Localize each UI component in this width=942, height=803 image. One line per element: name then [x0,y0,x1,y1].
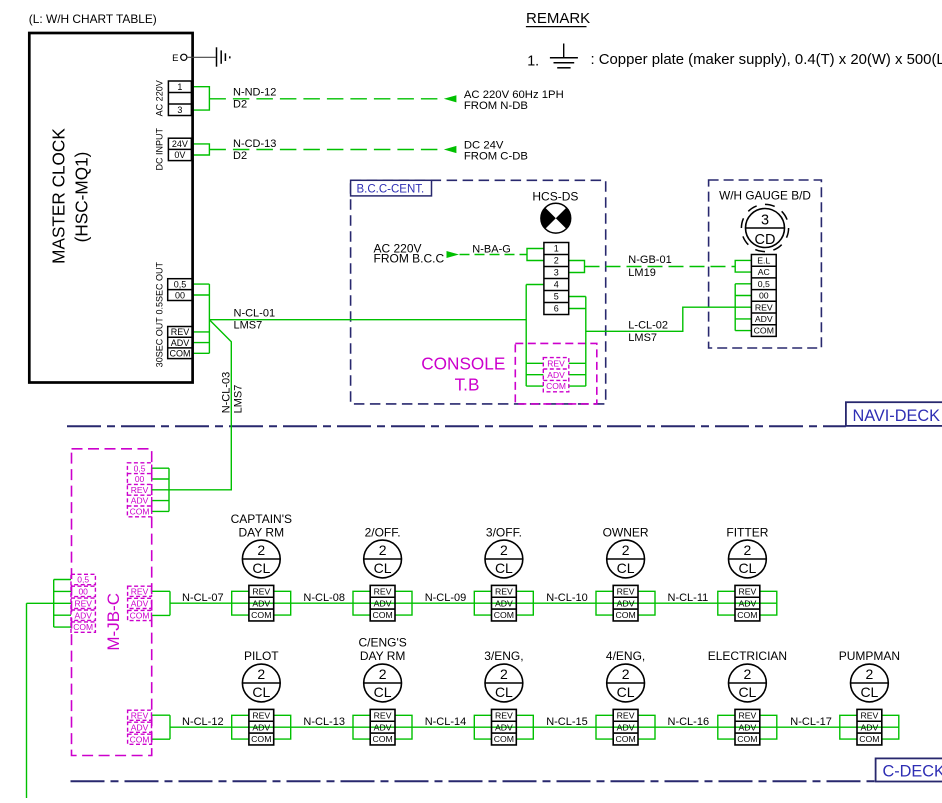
svg-text:: Copper plate (maker supply),: : Copper plate (maker supply), 0.4(T) x … [591,52,942,68]
svg-text:N-CL-12: N-CL-12 [182,716,224,728]
svg-text:W/H GAUGE B/D: W/H GAUGE B/D [719,189,811,203]
svg-text:0.5SEC OUT: 0.5SEC OUT [155,261,165,314]
note (L: W/H CHART TABLE) [29,12,157,26]
gauge board W/H GAUGE B/D [709,180,822,348]
svg-text:N-CL-14: N-CL-14 [425,716,467,728]
svg-text:CL: CL [252,684,270,700]
svg-text:2: 2 [744,666,752,682]
svg-text:COM: COM [494,734,514,744]
wire brackets clock row2 #1 [232,715,291,739]
wire brackets clock row1 #3 [474,591,533,615]
label DC 24V FROM C-DB [464,140,528,163]
wire to lower deck [27,603,54,798]
svg-text:2: 2 [379,542,387,558]
wire bracket HCS-DS pins 1,2 [527,249,544,261]
wire brackets clock row1 #5 [718,591,777,615]
master clock (HSC-MQ1) [29,33,192,383]
svg-text:N-CL-01: N-CL-01 [234,308,276,320]
slave clock 3/OFF. [485,526,523,621]
svg-text:4: 4 [554,280,559,290]
svg-text:N-CD-13: N-CD-13 [233,138,276,150]
svg-text:AC: AC [758,267,770,277]
svg-text:REV: REV [374,586,392,596]
svg-text:ADV: ADV [617,722,635,732]
svg-text:ADV: ADV [738,722,756,732]
svg-text:D2: D2 [233,150,247,162]
console T.B box [515,343,597,404]
svg-text:2: 2 [744,542,752,558]
svg-text:00: 00 [78,586,88,596]
svg-text:N-CL-09: N-CL-09 [425,592,467,604]
svg-text:CL: CL [495,560,513,576]
wire bracket M-JB-C row1 out [152,591,171,615]
wire E to earth [187,56,216,58]
label N-ND-12 D2 [233,87,276,111]
svg-text:CL: CL [738,684,756,700]
svg-text:N-CL-17: N-CL-17 [790,716,832,728]
svg-text:REV: REV [252,710,270,720]
svg-text:AC 220V: AC 220V [155,80,165,116]
svg-text:0,5: 0,5 [77,575,89,585]
label N-CL-17 [790,716,832,728]
label N-CL-11 [668,592,709,604]
arrowhead from N-DB [444,95,457,102]
label N-CL-12 [182,716,224,728]
wire row2 N-CL-12..17 [170,726,899,728]
label N-CL-10 [546,592,588,604]
svg-text:ADV: ADV [755,314,773,324]
svg-text:REMARK: REMARK [526,10,590,27]
slave clock C/ENG'S DAY RM [358,636,406,745]
svg-text:COM: COM [372,610,392,620]
svg-text:0,5: 0,5 [758,279,770,289]
label N-CL-07 [182,592,224,604]
svg-text:C-DECK: C-DECK [883,763,942,781]
wire N-CL-03 [169,320,231,490]
terminal strip W/H gauge [751,255,776,337]
svg-text:REV: REV [738,710,756,720]
svg-text:2: 2 [622,666,630,682]
wire bracket gauge E.L,AC [735,260,751,272]
svg-text:1: 1 [554,244,559,254]
wire brackets clock row2 #4 [596,715,655,739]
svg-text:N-CL-13: N-CL-13 [303,716,345,728]
svg-text:LM19: LM19 [628,267,656,279]
svg-text:ADV: ADV [252,598,270,608]
svg-text:(HSC-MQ1): (HSC-MQ1) [72,152,92,243]
junction box B.C.C-CENT [351,180,606,404]
svg-text:REV: REV [252,586,270,596]
label N-CL-03 LMS7 (vertical) [221,372,245,414]
svg-text:COM: COM [615,734,635,744]
label N-CD-13 D2 [233,138,276,162]
svg-text:ADV: ADV [131,496,149,506]
svg-text:N-GB-01: N-GB-01 [628,254,671,266]
svg-text:COM: COM [130,506,150,516]
slave clock CAPTAIN'S DAY RM [231,512,292,621]
wire brackets clock row1 #4 [596,591,655,615]
wire brackets clock row2 #5 [718,715,777,739]
wire bus gauge 0,5..COM [735,284,751,331]
svg-text:COM: COM [859,734,879,744]
svg-text:5: 5 [554,292,559,302]
svg-text:(L: W/H CHART TABLE): (L: W/H CHART TABLE) [29,12,157,26]
wire AC 220V bracket (pins 1,3) [193,87,210,110]
svg-text:N-BA-G: N-BA-G [472,243,511,255]
label N-CL-09 [425,592,467,604]
svg-text:COM: COM [251,734,271,744]
svg-text:OWNER: OWNER [603,526,649,540]
svg-text:N-CL-16: N-CL-16 [668,716,710,728]
svg-text:FITTER: FITTER [726,526,768,540]
svg-text:2: 2 [379,666,387,682]
svg-text:COM: COM [170,348,191,358]
svg-text:COM: COM [754,326,774,336]
arrowhead from C-DB [444,146,457,153]
slave clock HCS-DS symbol [532,190,578,234]
svg-text:FROM C-DB: FROM C-DB [464,150,528,162]
svg-text:CONSOLE: CONSOLE [421,354,505,374]
gauge clock symbol 3/CD [741,204,788,251]
remark heading [526,10,590,27]
svg-text:PILOT: PILOT [244,649,279,663]
label N-CL-14 [425,716,467,728]
svg-text:N-CL-11: N-CL-11 [668,592,709,604]
wire brackets clock row1 #2 [353,591,412,615]
wire N-CL-01 [209,319,526,321]
svg-text:ADV: ADV [374,722,392,732]
svg-text:FROM B.C.C: FROM B.C.C [374,252,445,266]
svg-text:REV: REV [74,598,92,608]
svg-text:ADV: ADV [171,338,190,348]
svg-text:N-CL-08: N-CL-08 [303,592,345,604]
svg-text:DAY RM: DAY RM [239,526,285,540]
svg-text:2: 2 [257,542,265,558]
svg-text:M-JB-C: M-JB-C [104,593,123,651]
svg-text:B.C.C-CENT.: B.C.C-CENT. [357,184,425,196]
svg-text:1: 1 [177,82,182,92]
svg-text:COM: COM [130,611,150,621]
wire bus 0.5SEC/30SEC OUT [193,284,210,353]
svg-text:REV: REV [131,485,149,495]
svg-text:6: 6 [554,304,559,314]
wire bus M-JB-C top group [152,468,169,511]
terminal strip HCS-DS 1-6 [544,243,569,315]
slave clock PUMPMAN [839,649,900,745]
terminal strip 30SEC OUT [155,317,193,368]
label box NAVI-DECK [846,402,942,426]
slave clock ELECTRICIAN [708,649,787,745]
wire N-GB-01 (dashed) [585,266,736,268]
wire brackets clock row2 #6 [840,715,899,739]
terminal strip M-JB-C row2 out (REV,ADV,COM) [128,710,152,744]
svg-text:ADV: ADV [74,610,92,620]
svg-text:E.L: E.L [757,255,770,265]
svg-text:ADV: ADV [495,598,513,608]
svg-text:N-CL-03: N-CL-03 [221,372,233,414]
label AC 220V 60Hz 1PH FROM N-DB [464,89,564,112]
svg-text:REV: REV [171,327,190,337]
svg-text:COM: COM [737,734,757,744]
terminal E [172,53,187,64]
wire brackets clock row1 #1 [232,591,291,615]
svg-text:3: 3 [177,105,182,115]
svg-text:ADV: ADV [252,722,270,732]
label box C-DECK [876,758,942,781]
svg-text:COM: COM [372,734,392,744]
wire L-CL-02 [586,307,752,331]
svg-text:3/ENG,: 3/ENG, [484,649,523,663]
svg-text:C/ENG'S: C/ENG'S [358,636,406,650]
slave clock PILOT [242,649,280,745]
terminal strip M-JB-C row1 out (REV,ADV,COM) [128,586,152,620]
svg-text:CL: CL [617,684,635,700]
svg-text:D2: D2 [233,99,247,111]
svg-text:COM: COM [615,610,635,620]
svg-text:REV: REV [495,710,513,720]
svg-text:PUMPMAN: PUMPMAN [839,649,900,663]
svg-text:1.: 1. [527,54,539,70]
svg-text:2: 2 [257,666,265,682]
svg-text:ADV: ADV [738,598,756,608]
svg-text:COM: COM [73,622,93,632]
ground symbol (remark legend) [550,44,578,68]
svg-text:HCS-DS: HCS-DS [532,190,578,204]
svg-text:0,5: 0,5 [134,463,146,473]
svg-text:COM: COM [130,734,150,744]
svg-text:2: 2 [500,542,508,558]
svg-text:ADV: ADV [131,598,149,608]
terminal strip M-JB-C top (0,5..COM) [127,463,151,517]
svg-text:CAPTAIN'S: CAPTAIN'S [231,512,292,526]
svg-text:LMS7: LMS7 [628,332,657,344]
svg-text:CL: CL [617,560,635,576]
svg-text:0,5: 0,5 [174,279,187,289]
svg-text:2/OFF.: 2/OFF. [365,526,401,540]
slave clock FITTER [726,526,768,621]
remark item 1 [527,54,539,70]
svg-text:ADV: ADV [495,722,513,732]
svg-text:REV: REV [860,710,878,720]
wire bracket M-JB-C row2 out [152,715,171,739]
svg-text:00: 00 [135,474,145,484]
label N-CL-16 [668,716,710,728]
wire row1 N-CL-07..11 [170,602,777,604]
svg-text:DC INPUT: DC INPUT [155,128,165,171]
svg-text:2: 2 [622,542,630,558]
svg-text:DAY RM: DAY RM [360,649,406,663]
svg-text:COM: COM [494,610,514,620]
svg-text:REV: REV [755,302,773,312]
svg-text:REV: REV [131,710,149,720]
svg-text:CL: CL [860,684,878,700]
ground (earth, copper plate) [217,47,230,66]
svg-text:REV: REV [374,710,392,720]
svg-text:REV: REV [131,586,149,596]
deck line C-DECK [71,780,876,782]
svg-text:REV: REV [617,710,635,720]
svg-text:3: 3 [761,213,769,229]
label CONSOLE T.B [421,354,505,395]
slave clock 4/ENG, [606,649,645,745]
wire N-ND-12 (dashed) [209,98,443,100]
svg-text:00: 00 [175,290,185,300]
label N-BA-G [472,243,511,255]
svg-text:NAVI-DECK: NAVI-DECK [853,407,941,425]
svg-text:CD: CD [755,232,776,248]
svg-text:L-CL-02: L-CL-02 [628,319,668,331]
wire brackets clock row2 #2 [353,715,412,739]
svg-text:CL: CL [738,560,756,576]
svg-text:E: E [172,53,178,64]
wire bus HCS-DS pins 5,6 to console [569,297,586,387]
svg-text:0V: 0V [174,150,185,160]
junction box M-JB-C [72,449,152,756]
svg-text:REV: REV [547,358,565,368]
slave clock 3/ENG, [484,649,523,745]
svg-text:N-CL-15: N-CL-15 [546,716,588,728]
svg-text:CL: CL [374,560,392,576]
svg-text:ADV: ADV [860,722,878,732]
svg-text:ADV: ADV [547,370,565,380]
svg-text:24V: 24V [172,139,188,149]
label N-CL-15 [546,716,588,728]
label N-CL-01 LMS7 [234,308,276,332]
terminal strip DC INPUT 24V,0V [155,128,192,171]
svg-text:COM: COM [546,381,566,391]
wire DC 24V bracket [193,144,210,155]
svg-text:N-ND-12: N-ND-12 [233,87,276,99]
svg-text:30SEC OUT: 30SEC OUT [155,317,165,368]
svg-text:CL: CL [495,684,513,700]
svg-text:ELECTRICIAN: ELECTRICIAN [708,649,787,663]
label N-GB-01 LM19 [628,254,671,279]
svg-text:3/OFF.: 3/OFF. [486,526,522,540]
terminal strip console REV,ADV,COM [543,358,569,392]
wire bracket HCS-DS pins 2,3 [569,261,585,273]
label AC 220V FROM B.C.C [374,242,445,266]
svg-text:N-CL-10: N-CL-10 [546,592,588,604]
svg-text:LMS7: LMS7 [233,385,245,414]
wire bus HCS-DS pin 4 to console [526,285,544,387]
terminal strip AC 220V pins 1,3 [155,80,192,116]
svg-text:CL: CL [374,684,392,700]
svg-text:00: 00 [759,291,769,301]
slave clock 2/OFF. [364,526,402,621]
terminal strip 0.5SEC OUT [155,261,193,314]
svg-text:2: 2 [500,666,508,682]
label N-CL-08 [303,592,345,604]
label L-CL-02 LMS7 [628,319,668,344]
deck line NAVI-DECK [67,425,846,427]
svg-text:REV: REV [738,586,756,596]
svg-text:ADV: ADV [617,598,635,608]
svg-text:COM: COM [737,610,757,620]
wire brackets clock row2 #3 [474,715,533,739]
svg-text:LMS7: LMS7 [234,320,263,332]
svg-text:ADV: ADV [131,722,149,732]
label N-CL-13 [303,716,345,728]
svg-text:COM: COM [251,610,271,620]
svg-text:N-CL-07: N-CL-07 [182,592,224,604]
svg-text:MASTER CLOCK: MASTER CLOCK [49,128,69,264]
arrowhead from B.C.C [447,251,460,258]
svg-text:4/ENG,: 4/ENG, [606,649,645,663]
svg-text:2: 2 [554,256,559,266]
svg-text:REV: REV [617,586,635,596]
wire N-CD-13 (dashed) [209,149,443,151]
wire bus M-JB-C left group [54,580,71,628]
svg-text:3: 3 [554,268,559,278]
svg-text:REV: REV [495,586,513,596]
svg-text:CL: CL [252,560,270,576]
wire N-BA-G (dashed) [460,254,528,256]
slave clock OWNER [603,526,649,621]
terminal strip M-JB-C left (0,5..COM) [71,574,95,632]
svg-text:T.B: T.B [455,375,480,395]
svg-text:ADV: ADV [374,598,392,608]
remark text [591,52,942,68]
svg-text:2: 2 [866,666,874,682]
svg-text:FROM N-DB: FROM N-DB [464,100,528,112]
